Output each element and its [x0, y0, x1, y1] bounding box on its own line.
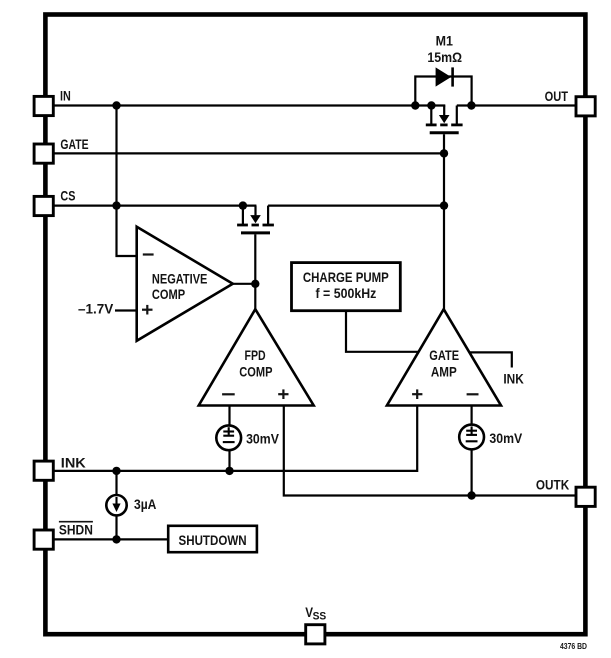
svg-text:GATE: GATE [60, 136, 88, 152]
svg-text:15mΩ: 15mΩ [427, 49, 462, 65]
svg-text:INK: INK [503, 370, 523, 386]
svg-text:SHDN: SHDN [59, 521, 93, 537]
svg-text:SHUTDOWN: SHUTDOWN [179, 532, 247, 548]
svg-text:CS: CS [60, 188, 75, 204]
svg-text:30mV: 30mV [246, 430, 279, 446]
svg-text:AMP: AMP [431, 363, 457, 379]
svg-text:COMP: COMP [152, 286, 185, 302]
svg-text:IN: IN [60, 88, 71, 104]
svg-text:M1: M1 [436, 33, 453, 49]
svg-text:OUT: OUT [545, 88, 569, 104]
svg-text:CHARGE PUMP: CHARGE PUMP [303, 269, 389, 285]
svg-text:f = 500kHz: f = 500kHz [316, 285, 377, 301]
svg-text:FPD: FPD [245, 347, 266, 363]
svg-text:GATE: GATE [429, 347, 459, 363]
svg-text:NEGATIVE: NEGATIVE [152, 270, 208, 286]
svg-text:30mV: 30mV [489, 430, 522, 446]
svg-text:SS: SS [313, 611, 327, 623]
svg-text:–1.7V: –1.7V [78, 301, 114, 317]
svg-text:4376 BD: 4376 BD [560, 641, 587, 651]
svg-text:3µA: 3µA [134, 496, 156, 512]
svg-text:OUTK: OUTK [536, 476, 569, 492]
svg-text:COMP: COMP [239, 363, 272, 379]
svg-text:INK: INK [61, 454, 86, 470]
